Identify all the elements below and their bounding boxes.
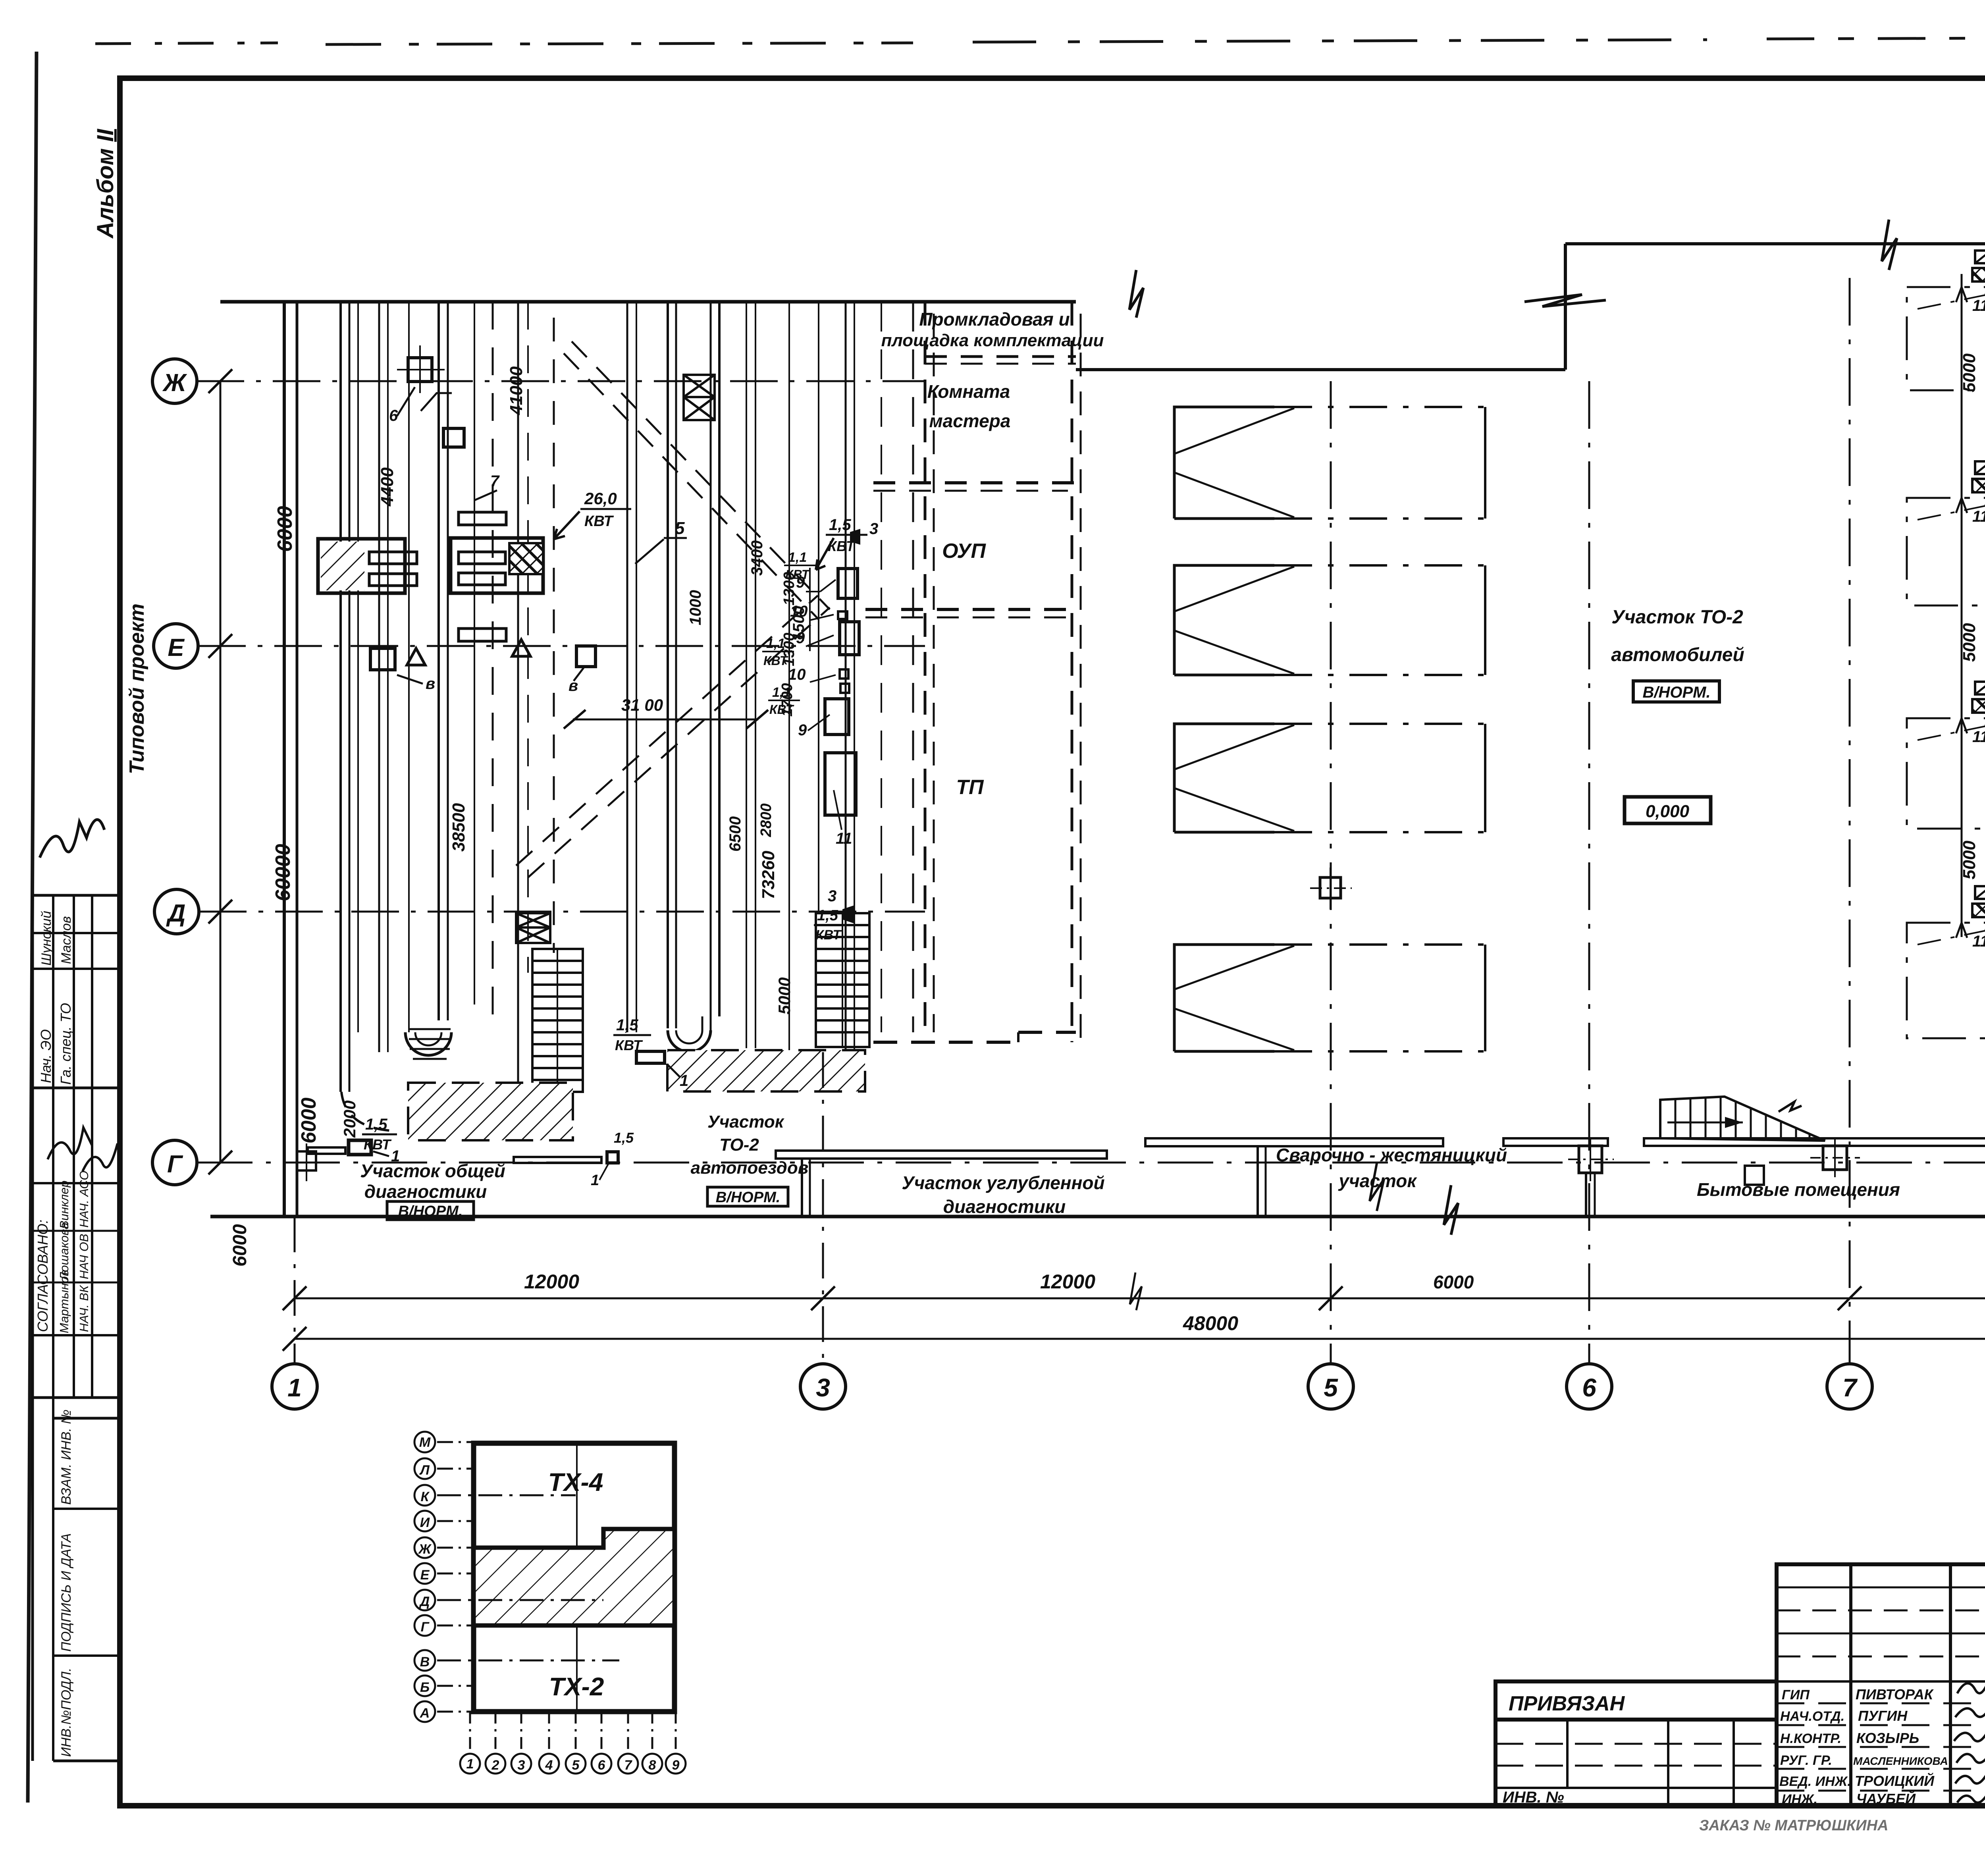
svg-text:Ж: Ж xyxy=(162,369,187,397)
bottom wall Г xyxy=(210,1215,1985,1219)
box В/НОРМ ТО-2 авто xyxy=(1633,681,1719,702)
svg-text:ПИВТОРАК: ПИВТОРАК xyxy=(1856,1686,1934,1702)
svg-text:в: в xyxy=(426,675,435,692)
svg-text:1,5: 1,5 xyxy=(817,907,838,924)
break mark top wall middle xyxy=(1129,270,1143,318)
svg-text:ПРИВЯЗАН: ПРИВЯЗАН xyxy=(1509,1692,1625,1715)
axis 6 vertical xyxy=(1588,381,1590,1363)
key plan column circles 1-9 xyxy=(460,1754,686,1774)
svg-text:4: 4 xyxy=(545,1758,553,1773)
svg-text:Участок ТО-2: Участок ТО-2 xyxy=(1611,607,1743,628)
svg-text:1,5: 1,5 xyxy=(616,1016,638,1034)
svg-text:Н.КОНТР.: Н.КОНТР. xyxy=(1780,1731,1841,1746)
unit row 2 outline xyxy=(1907,468,1985,633)
top wall right section xyxy=(1565,242,1985,245)
staff signatures xyxy=(1954,1677,1985,1803)
stair 2 xyxy=(816,913,869,1047)
svg-text:5000: 5000 xyxy=(1960,353,1979,392)
diagonal guide dashed lines left section xyxy=(516,341,830,877)
slot rects column 2 xyxy=(459,512,506,525)
conveyor lane lines group B xyxy=(668,302,913,1054)
svg-text:СОГЛАСОВАНО:: СОГЛАСОВАНО: xyxy=(35,1220,51,1332)
svg-text:ПУГИН: ПУГИН xyxy=(1858,1708,1908,1724)
svg-text:КВТ: КВТ xyxy=(815,927,842,943)
svg-text:Нач. ЭО: Нач. ЭО xyxy=(38,1029,54,1083)
top wall middle section xyxy=(1076,368,1565,371)
small rect + triangle pair 1 xyxy=(370,648,395,670)
svg-text:ИНЖ.: ИНЖ. xyxy=(1782,1792,1817,1807)
svg-text:Е: Е xyxy=(420,1568,430,1583)
svg-text:2800: 2800 xyxy=(758,803,775,837)
svg-text:В: В xyxy=(420,1654,430,1670)
room column left wall dashed xyxy=(924,302,927,1032)
svg-text:48000: 48000 xyxy=(1183,1312,1238,1334)
svg-text:Г: Г xyxy=(167,1151,183,1178)
svg-text:диагностики: диагностики xyxy=(943,1196,1066,1217)
X-braced squares column top xyxy=(684,375,715,420)
key plan outline xyxy=(474,1443,675,1712)
margin signatures xyxy=(40,819,104,858)
unit row 4 outline xyxy=(1907,893,1985,1066)
svg-text:Участок общей: Участок общей xyxy=(360,1161,505,1181)
column marker on axis Г left xyxy=(297,1151,316,1170)
speaker icon 3 upper xyxy=(850,529,860,545)
equip rect 1 group B xyxy=(636,1051,665,1063)
break mark bottom wall xyxy=(1444,1185,1458,1235)
bench small mid-left xyxy=(514,1157,601,1163)
unit row 1 outline xyxy=(1907,257,1985,418)
svg-text:4400: 4400 xyxy=(378,467,397,507)
svg-text:РУГ. ГР.: РУГ. ГР. xyxy=(1780,1753,1832,1768)
X-braced squares column lower xyxy=(516,913,550,943)
svg-text:Шунский: Шунский xyxy=(39,911,54,966)
svg-text:Л: Л xyxy=(419,1463,430,1478)
bench long 4 xyxy=(1644,1138,1985,1146)
svg-text:Ж: Ж xyxy=(418,1542,432,1557)
axis 5 vertical xyxy=(1330,381,1332,1363)
speaker icon 3 lower xyxy=(842,905,854,924)
svg-text:ЧАУБЕЙ: ЧАУБЕЙ xyxy=(1856,1790,1916,1807)
svg-text:ОУП: ОУП xyxy=(942,540,986,563)
svg-text:5: 5 xyxy=(675,519,685,538)
svg-text:2: 2 xyxy=(491,1758,499,1773)
svg-text:1: 1 xyxy=(466,1756,474,1772)
bench long 2 xyxy=(1145,1138,1443,1146)
unit row 4 corner icons xyxy=(1975,886,1985,899)
svg-text:3400: 3400 xyxy=(748,540,766,576)
svg-text:1,5: 1,5 xyxy=(614,1130,634,1146)
break mark dim line xyxy=(1130,1273,1142,1310)
axis 5 circle xyxy=(1308,1364,1353,1409)
axis 1 circle xyxy=(272,1364,317,1409)
box 0.000 xyxy=(1625,797,1711,823)
bench long 3 xyxy=(1503,1138,1608,1146)
unit row 1 corner icons xyxy=(1975,251,1985,263)
svg-text:В/НОРМ.: В/НОРМ. xyxy=(1642,684,1710,701)
svg-text:площадка комплектации: площадка комплектации xyxy=(881,331,1104,350)
stair 1 xyxy=(532,949,583,1092)
svg-text:ТО-2: ТО-2 xyxy=(719,1135,759,1155)
svg-text:Б: Б xyxy=(420,1680,430,1695)
svg-text:А: А xyxy=(420,1706,430,1721)
svg-text:73260: 73260 xyxy=(759,850,778,899)
svg-text:МАСЛЕННИКОВА: МАСЛЕННИКОВА xyxy=(1853,1755,1948,1767)
svg-text:10: 10 xyxy=(788,666,806,683)
svg-text:5000: 5000 xyxy=(1960,841,1979,879)
left margin stamp column xyxy=(33,895,120,1761)
svg-text:ВЗАМ. ИНВ. №: ВЗАМ. ИНВ. № xyxy=(59,1409,74,1505)
svg-text:КОЗЫРЬ: КОЗЫРЬ xyxy=(1856,1730,1919,1746)
staff names xyxy=(1853,1686,1948,1807)
break mark label line xyxy=(1370,1163,1384,1211)
dimension line 12000 12000 6000 row xyxy=(295,1298,1985,1300)
key plan axis 5 line xyxy=(576,1443,578,1712)
svg-text:автопоездов: автопоездов xyxy=(691,1158,809,1178)
svg-text:Винклер: Винклер xyxy=(57,1180,71,1229)
axis Е circle xyxy=(154,624,198,668)
bench post 1 xyxy=(801,1159,803,1217)
axis Д circle xyxy=(154,889,199,934)
hatched strip left bottom xyxy=(408,1083,573,1140)
bench post 2 xyxy=(1257,1146,1259,1217)
axis Г circle xyxy=(152,1140,197,1185)
svg-text:Участок углубленной: Участок углубленной xyxy=(902,1172,1104,1193)
svg-text:1: 1 xyxy=(287,1373,302,1402)
staff titles xyxy=(1779,1687,1851,1807)
left dimension line 6000/60000 xyxy=(220,381,222,1163)
svg-text:КВТ: КВТ xyxy=(769,702,794,717)
svg-text:9: 9 xyxy=(796,629,805,647)
key plan row circles М Л К И Ж Е Д Г В Б А xyxy=(414,1432,435,1722)
svg-text:НАЧ. АСО: НАЧ. АСО xyxy=(77,1171,91,1228)
equip rect 1 bottom left xyxy=(349,1140,371,1155)
svg-text:диагностики: диагностики xyxy=(364,1181,487,1202)
bay 4 xyxy=(1174,945,1485,1051)
equipment block 1 with diagonal hatch xyxy=(318,539,405,593)
svg-text:38500: 38500 xyxy=(449,803,468,852)
svg-text:5: 5 xyxy=(1324,1373,1338,1402)
axis 1 vertical xyxy=(294,1217,296,1363)
master room bottom dashed wall xyxy=(873,481,1076,484)
svg-text:Е: Е xyxy=(168,634,185,661)
svg-text:11: 11 xyxy=(1972,508,1985,525)
staff table xyxy=(1777,1564,1985,1806)
svg-text:9: 9 xyxy=(798,721,807,739)
bay 3 xyxy=(1174,724,1485,832)
sheet left edge scan line xyxy=(28,52,37,1803)
key plan xyxy=(474,1443,675,1712)
svg-text:6000: 6000 xyxy=(229,1224,251,1267)
conveyor lane lines group A xyxy=(341,302,636,1092)
svg-text:мастера: мастера xyxy=(929,411,1011,431)
svg-text:ТХ-4: ТХ-4 xyxy=(548,1468,603,1496)
svg-text:6000: 6000 xyxy=(297,1097,320,1143)
svg-text:ВЕД. ИНЖ.: ВЕД. ИНЖ. xyxy=(1779,1774,1851,1789)
svg-text:3: 3 xyxy=(828,887,836,905)
svg-text:КВТ: КВТ xyxy=(763,654,788,668)
svg-text:Г: Г xyxy=(421,1620,430,1635)
svg-text:8: 8 xyxy=(649,1758,656,1773)
svg-text:ТП: ТП xyxy=(956,776,984,799)
svg-text:6000: 6000 xyxy=(1433,1272,1474,1292)
equipment block 2 with crosshatch xyxy=(451,538,543,593)
small equipment column mid xyxy=(825,569,859,815)
svg-text:Участок: Участок xyxy=(707,1112,785,1132)
svg-text:7: 7 xyxy=(490,472,500,490)
svg-text:И: И xyxy=(420,1515,430,1530)
rect equip below xyxy=(443,428,464,447)
axis 7 vertical xyxy=(1849,278,1851,1363)
svg-text:6: 6 xyxy=(598,1758,606,1773)
svg-text:9: 9 xyxy=(672,1758,680,1773)
svg-text:В/НОРМ.: В/НОРМ. xyxy=(716,1189,781,1206)
svg-text:26,0: 26,0 xyxy=(584,489,617,508)
svg-text:6500: 6500 xyxy=(727,816,744,852)
column marker mid plan xyxy=(1320,877,1341,898)
column marker axis Г mid xyxy=(1745,1166,1764,1185)
svg-text:6: 6 xyxy=(1582,1373,1596,1402)
break mark step wall xyxy=(1524,295,1606,307)
svg-text:К: К xyxy=(421,1489,430,1504)
svg-text:КВТ: КВТ xyxy=(785,567,810,582)
step wall at axis 6 xyxy=(1564,244,1567,370)
svg-text:НАЧ ОВ: НАЧ ОВ xyxy=(77,1234,91,1279)
svg-text:1000: 1000 xyxy=(687,590,704,625)
axis Г line xyxy=(197,1162,1985,1164)
sheet top edge scan line xyxy=(95,37,1985,44)
svg-text:5: 5 xyxy=(572,1758,580,1773)
bay 1 xyxy=(1174,407,1485,519)
bench post 4 xyxy=(1823,1146,1847,1170)
svg-text:1,5: 1,5 xyxy=(365,1116,387,1133)
hatched strip under group B xyxy=(667,1050,865,1091)
building left wall xyxy=(283,302,286,1217)
ramp hatched xyxy=(1660,1097,1825,1141)
svg-text:Мартынов: Мартынов xyxy=(57,1270,71,1333)
svg-text:1,5: 1,5 xyxy=(829,516,851,534)
svg-text:5000: 5000 xyxy=(1960,623,1979,662)
svg-text:Маслов: Маслов xyxy=(59,916,74,964)
conveyor U-turn group A xyxy=(405,1032,451,1055)
axis 6 circle xyxy=(1567,1364,1612,1409)
unit row 3 outline xyxy=(1907,688,1985,856)
svg-text:Сварочно - жестяницкий: Сварочно - жестяницкий xyxy=(1276,1145,1507,1165)
svg-text:автомобилей: автомобилей xyxy=(1611,644,1744,665)
svg-text:11: 11 xyxy=(836,830,852,847)
svg-text:1: 1 xyxy=(591,1172,599,1189)
bench long 1 xyxy=(776,1151,1107,1159)
svg-text:Типовой проект: Типовой проект xyxy=(125,603,148,774)
svg-text:3: 3 xyxy=(816,1373,830,1402)
svg-text:ПОДПИСЬ И ДАТА: ПОДПИСЬ И ДАТА xyxy=(59,1533,74,1652)
svg-text:11: 11 xyxy=(1972,728,1985,746)
key plan hatched zone xyxy=(474,1529,675,1625)
svg-text:Альбом II: Альбом II xyxy=(93,128,118,239)
bench row left xyxy=(308,1147,345,1154)
curved lane bottom left xyxy=(341,1092,392,1131)
svg-text:10: 10 xyxy=(790,603,808,620)
svg-text:41000: 41000 xyxy=(507,366,526,415)
svg-text:0,000: 0,000 xyxy=(1646,802,1690,821)
svg-text:ИНВ. №: ИНВ. № xyxy=(1503,1789,1564,1806)
square equip top group A xyxy=(408,358,432,382)
svg-text:Комната: Комната xyxy=(927,381,1010,402)
svg-text:Бытовые помещения: Бытовые помещения xyxy=(1697,1179,1900,1200)
svg-text:1: 1 xyxy=(680,1072,688,1089)
svg-text:В/НОРМ.: В/НОРМ. xyxy=(398,1203,463,1220)
break mark top wall right xyxy=(1882,220,1897,270)
small rect + triangle pair 2 xyxy=(512,640,530,656)
svg-text:31 00: 31 00 xyxy=(621,696,663,714)
svg-text:Га. спец. ТО: Га. спец. ТО xyxy=(58,1003,74,1085)
dimension line 48000 xyxy=(295,1338,1985,1340)
svg-text:3: 3 xyxy=(518,1758,525,1773)
top wall left section xyxy=(220,300,1076,304)
Привязан box xyxy=(1495,1681,1777,1720)
box В/НОРМ left xyxy=(387,1201,474,1220)
svg-text:КВТ: КВТ xyxy=(584,513,614,530)
room column right wall dashed xyxy=(1071,302,1073,1042)
slot rects in block 1 xyxy=(369,552,417,564)
svg-text:Д: Д xyxy=(166,900,186,927)
axis Ж line xyxy=(197,380,925,382)
ОУП bottom dashed wall xyxy=(865,608,1076,611)
dim 5000 vertical chain xyxy=(1961,274,1963,937)
svg-text:11: 11 xyxy=(1972,297,1985,314)
axis Е line xyxy=(198,645,925,647)
svg-text:1,1: 1,1 xyxy=(772,685,791,700)
svg-text:ИНВ.№ПОДЛ.: ИНВ.№ПОДЛ. xyxy=(59,1668,74,1757)
svg-text:60000: 60000 xyxy=(272,844,295,901)
svg-text:ГИП: ГИП xyxy=(1782,1687,1810,1702)
svg-text:1,1: 1,1 xyxy=(766,636,785,651)
lower-left table of title area xyxy=(1495,1720,1777,1806)
svg-text:ТРОИЦКИЙ: ТРОИЦКИЙ xyxy=(1855,1772,1935,1789)
svg-text:М: М xyxy=(419,1435,431,1450)
equip rect 1b xyxy=(607,1152,618,1163)
svg-text:НАЧ.ОТД.: НАЧ.ОТД. xyxy=(1780,1709,1844,1724)
svg-text:7: 7 xyxy=(1842,1373,1858,1402)
bench post 3 xyxy=(1579,1146,1602,1173)
svg-text:12000: 12000 xyxy=(1040,1271,1095,1293)
unit row 3 corner icons xyxy=(1975,682,1985,694)
unit row 2 corner icons xyxy=(1975,461,1985,474)
svg-text:7: 7 xyxy=(624,1758,633,1773)
ТП bottom dashed wall xyxy=(1018,1031,1076,1034)
axis Д line xyxy=(199,911,925,913)
bay 2 xyxy=(1174,565,1485,675)
conveyor U-turn group B xyxy=(668,1030,711,1052)
svg-text:ЗАКАЗ № МАТРЮШКИНА: ЗАКАЗ № МАТРЮШКИНА xyxy=(1699,1817,1888,1834)
svg-text:6000: 6000 xyxy=(274,506,297,552)
storeroom bottom dashed wall xyxy=(925,355,1076,358)
axis Ж circle xyxy=(152,359,197,403)
svg-text:НАЧ. ВК: НАЧ. ВК xyxy=(77,1285,91,1332)
svg-text:11: 11 xyxy=(1972,933,1985,950)
axis 3 circle xyxy=(800,1364,846,1409)
svg-text:5000: 5000 xyxy=(775,978,794,1014)
svg-text:1,1: 1,1 xyxy=(788,550,807,565)
svg-text:ТХ-2: ТХ-2 xyxy=(549,1672,604,1701)
axis 7 circle xyxy=(1827,1364,1872,1409)
svg-text:3: 3 xyxy=(869,520,878,538)
svg-text:в: в xyxy=(569,677,578,694)
axis 3 vertical xyxy=(822,1052,824,1363)
box В/НОРМ ТО-2 xyxy=(707,1187,788,1206)
svg-text:Промкладовая и: Промкладовая и xyxy=(919,309,1070,330)
svg-text:Д: Д xyxy=(419,1594,430,1609)
svg-text:12000: 12000 xyxy=(524,1271,579,1293)
